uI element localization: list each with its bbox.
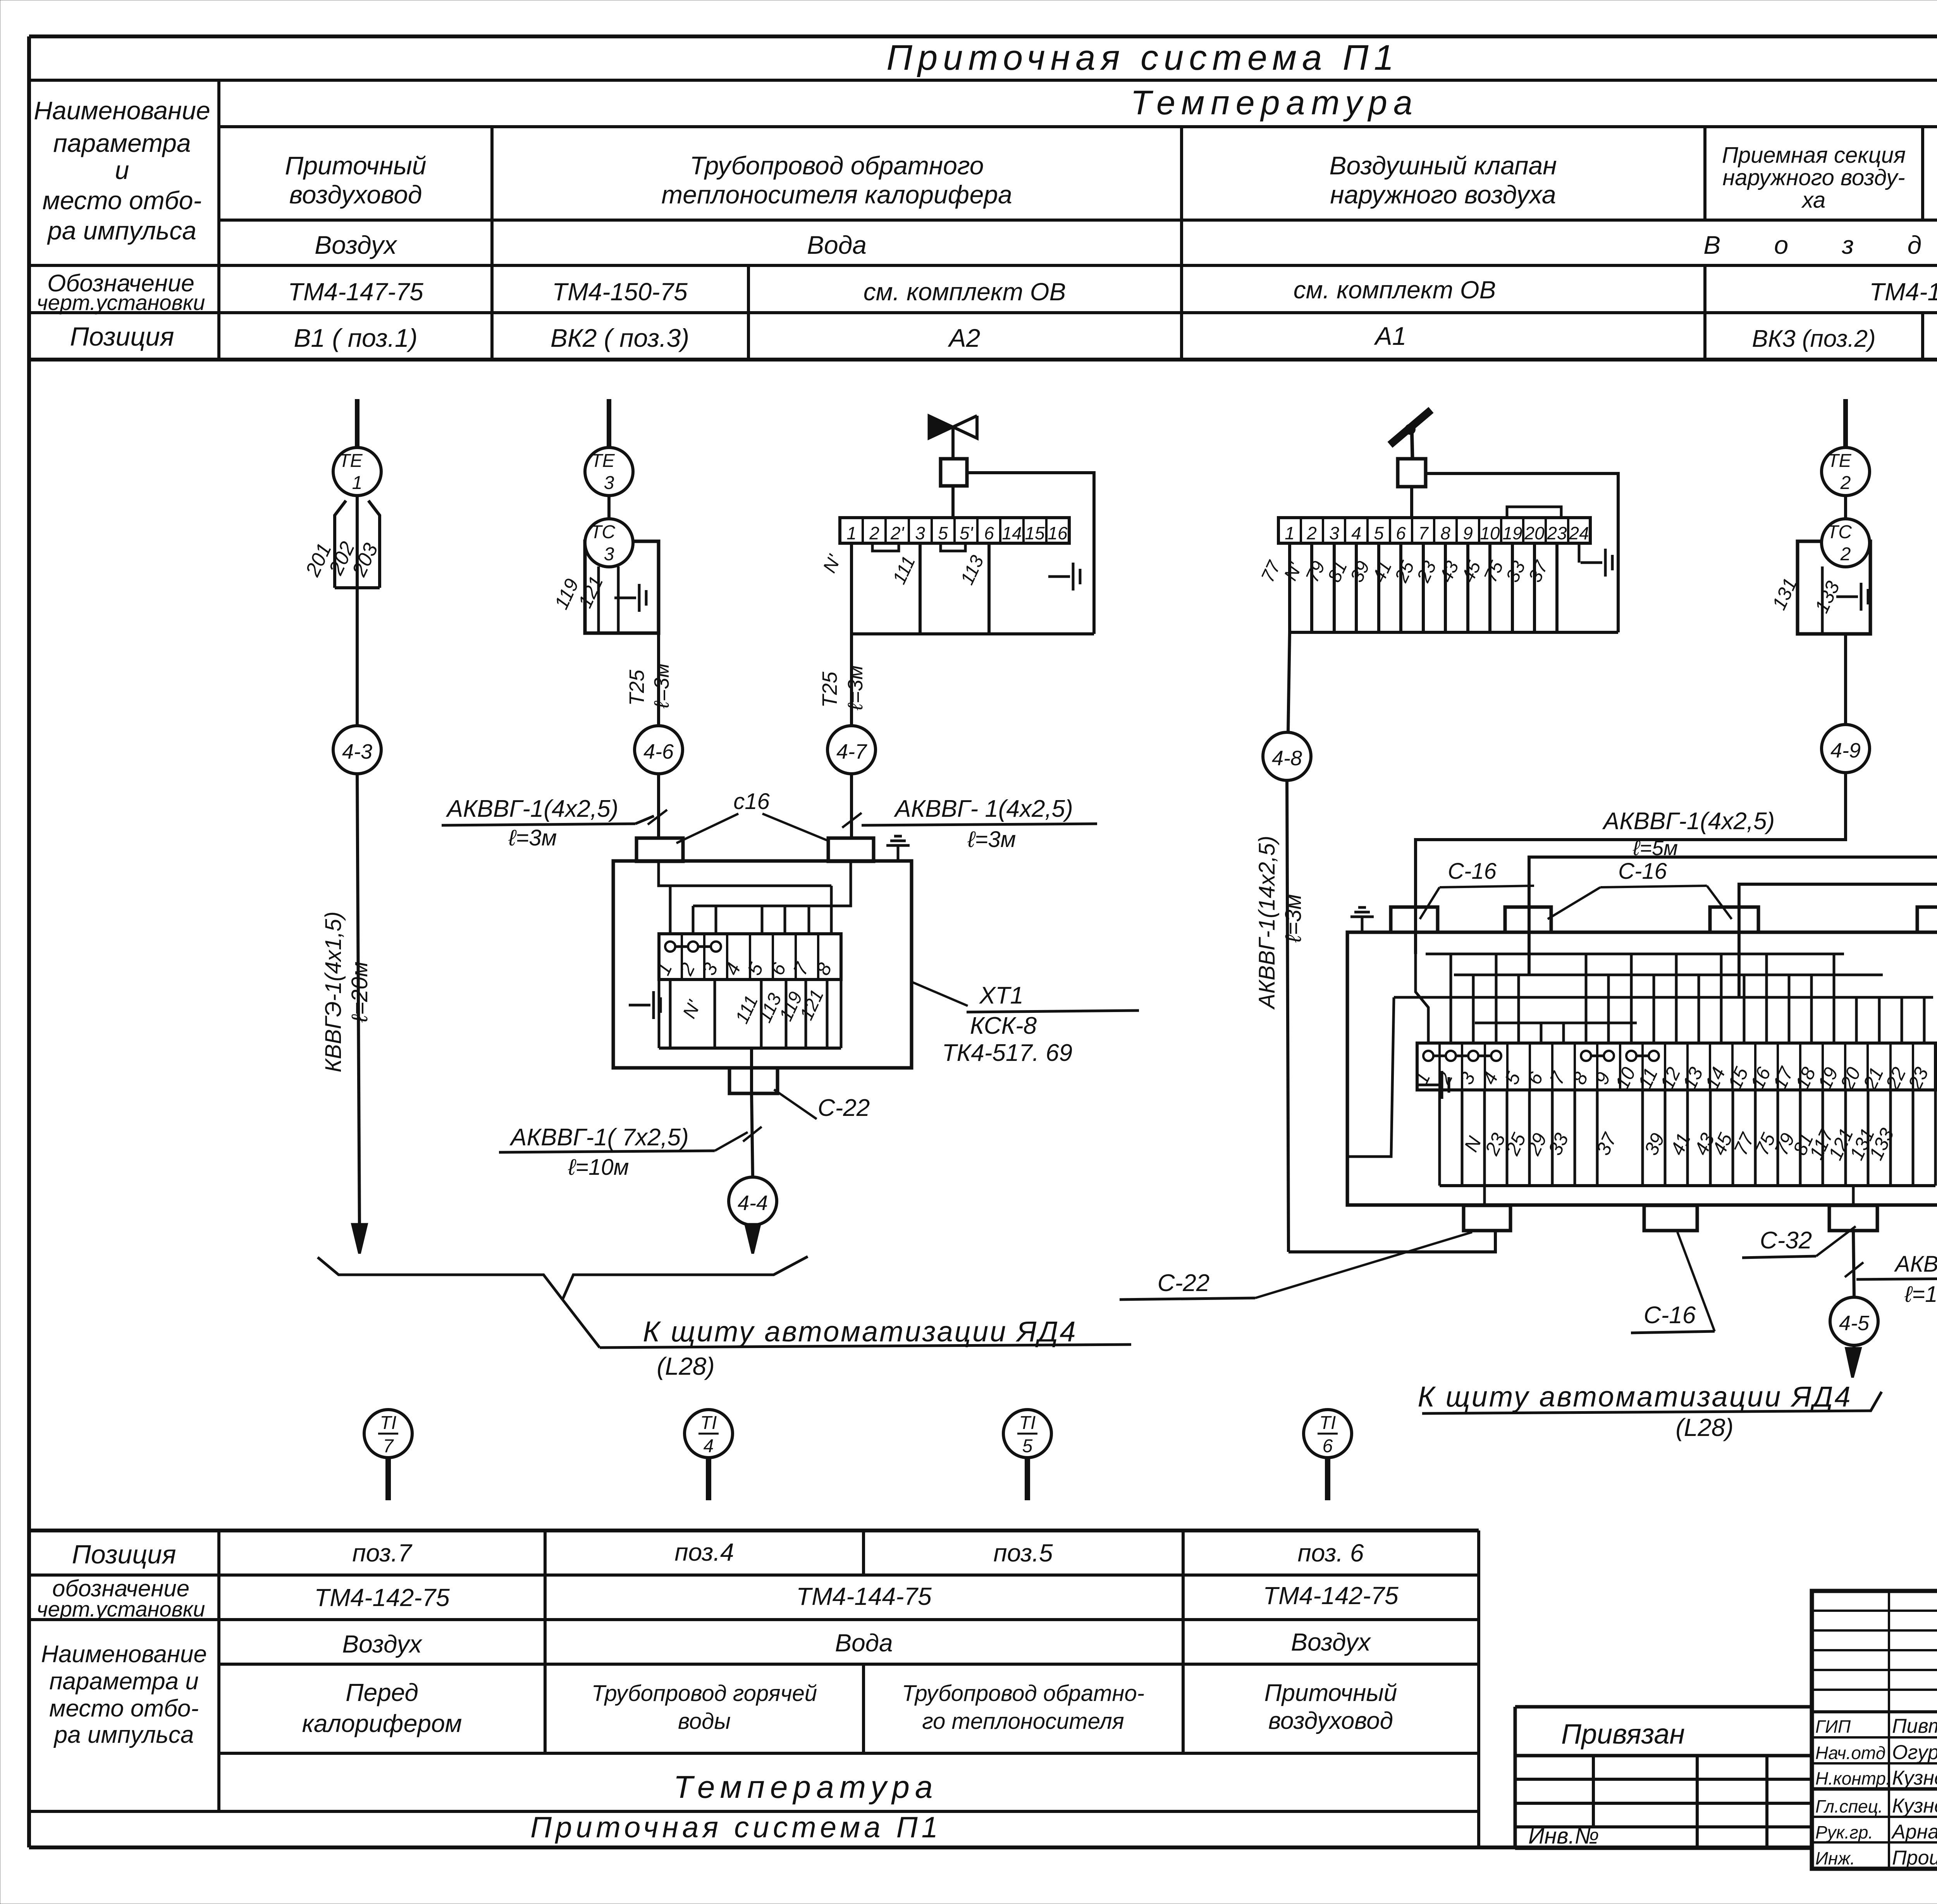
svg-text:Приточный: Приточный	[1264, 1680, 1397, 1706]
jumper clip cells 19-23	[1507, 507, 1561, 518]
svg-text:С-32: С-32	[1760, 1227, 1812, 1254]
XT1 top connector left	[636, 838, 683, 861]
svg-text:ℓ=20м: ℓ=20м	[347, 962, 372, 1023]
wires below strip A1	[1290, 543, 1557, 632]
cable label l=3м rotated (A1)	[1281, 894, 1306, 943]
cable label АКВВГ-1(14х2,5) rotated	[1254, 836, 1280, 1010]
junction box XT2	[1347, 932, 1937, 1205]
ground inside XT2	[1417, 1084, 1439, 1086]
svg-text:Пивторак: Пивторак	[1892, 1715, 1937, 1737]
sensor TC2 (ВК3)	[1822, 519, 1870, 567]
wire tag 113	[957, 552, 988, 588]
sensor TC3 junction box	[585, 541, 659, 633]
svg-text:КВВГЭ-1(4х1,5): КВВГЭ-1(4х1,5)	[321, 911, 346, 1072]
wire stem above TE1	[355, 399, 360, 448]
wire square to strip	[951, 486, 955, 518]
wire tag 119	[550, 575, 583, 613]
svg-text:и: и	[115, 156, 129, 184]
svg-text:ра импульса: ра импульса	[53, 1722, 194, 1748]
wire tag N'	[819, 551, 845, 576]
svg-text:5: 5	[1022, 1436, 1033, 1456]
XT1 top connector right	[828, 838, 874, 861]
svg-text:2': 2'	[890, 523, 905, 543]
stem below TI6	[1325, 1458, 1330, 1500]
svg-text:ℓ=5м: ℓ=5м	[1633, 837, 1678, 860]
svg-text:3: 3	[604, 473, 614, 493]
svg-text:черт.установки: черт.установки	[37, 290, 205, 315]
svg-text:Воздух: Воздух	[342, 1630, 422, 1658]
local thermometer TI5	[1003, 1410, 1051, 1458]
wire tag 201	[301, 540, 336, 580]
wire С-32 to 4-5	[1853, 1231, 1854, 1297]
privyazan table grid	[1515, 1707, 1812, 1848]
wire TE3-TC3	[607, 496, 611, 519]
wire bus to 4-7	[850, 634, 853, 726]
svg-text:2: 2	[1306, 523, 1317, 543]
damper actuator square	[1398, 459, 1426, 487]
svg-text:23: 23	[1547, 523, 1567, 543]
arrow down (to ЯД4) left	[353, 1224, 366, 1253]
arrow below 4-4	[751, 1225, 754, 1240]
svg-text:поз.4: поз.4	[674, 1538, 734, 1566]
svg-text:воды: воды	[678, 1709, 731, 1734]
cable label АКВВГ-1(4х2,5) right	[862, 795, 1097, 852]
svg-text:место отбо-: место отбо-	[43, 186, 202, 215]
svg-text:Кузнецов: Кузнецов	[1892, 1767, 1937, 1789]
cable marker 4-8	[1263, 732, 1311, 780]
svg-text:6: 6	[984, 523, 994, 543]
signature rows	[1815, 1715, 1937, 1869]
svg-text:4-6: 4-6	[643, 740, 674, 763]
svg-text:С-22: С-22	[818, 1095, 870, 1121]
svg-text:5: 5	[938, 523, 948, 543]
wire 4-10 feeder	[1529, 773, 1937, 975]
XT2 top connector 3	[1710, 907, 1758, 932]
sensor TC3	[585, 519, 633, 567]
svg-text:АКВВГ-1(14х2,5): АКВВГ-1(14х2,5)	[1254, 836, 1280, 1010]
svg-text:ТI: ТI	[380, 1413, 397, 1433]
box cell lines TC3	[597, 566, 600, 633]
wire tag 121	[574, 573, 607, 611]
svg-text:ТМ4-147-75: ТМ4-147-75	[1869, 278, 1937, 306]
svg-text:Приточная система П1: Приточная система П1	[886, 38, 1399, 77]
XT2 jumper 8-9	[1586, 1055, 1609, 1057]
damper drive symbol	[1390, 410, 1431, 445]
svg-text:ℓ=15м: ℓ=15м	[1904, 1282, 1937, 1307]
air valve symbol (bowtie)	[929, 416, 953, 438]
svg-text:воздуховод: воздуховод	[289, 180, 422, 209]
svg-text:АКВВГ-1(4х2,5): АКВВГ-1(4х2,5)	[446, 795, 618, 822]
wire 111 from cell 3	[919, 543, 922, 634]
svg-text:ТМ4-144-75: ТМ4-144-75	[796, 1582, 932, 1610]
wire 113 from cell 6	[987, 543, 991, 634]
svg-text:Наименование: Наименование	[41, 1641, 207, 1668]
svg-text:3: 3	[604, 544, 614, 565]
svg-text:Воздух: Воздух	[315, 231, 397, 259]
svg-text:ℓ=3м: ℓ=3м	[844, 665, 867, 711]
svg-text:АКВВГ-1(4х2,5): АКВВГ-1(4х2,5)	[1602, 808, 1775, 835]
svg-text:ℓ=3м: ℓ=3м	[508, 825, 557, 850]
svg-text:Кузнецов: Кузнецов	[1892, 1795, 1937, 1817]
cable marker 4-9	[1822, 725, 1870, 773]
svg-text:Инв.№: Инв.№	[1528, 1823, 1599, 1849]
svg-text:ГИП: ГИП	[1815, 1716, 1851, 1737]
svg-text:ТМ4-142-75: ТМ4-142-75	[314, 1584, 450, 1611]
svg-text:16: 16	[1048, 523, 1068, 543]
stem below TI5	[1025, 1458, 1030, 1500]
wire tag 202	[325, 538, 360, 578]
XT1 drop to cell 3	[715, 906, 717, 934]
svg-text:Гл.спец.: Гл.спец.	[1815, 1796, 1883, 1816]
XT1 tag N'	[679, 997, 705, 1022]
XT2 bottom connector С-16	[1644, 1205, 1697, 1231]
sensor TE2 (ВК3)	[1822, 448, 1870, 496]
XT1 tag 111	[732, 992, 762, 1027]
cable label l=20м rotated	[347, 962, 372, 1023]
svg-text:4-5: 4-5	[1839, 1312, 1870, 1335]
svg-text:4-3: 4-3	[342, 740, 372, 763]
junction box XT1	[613, 861, 912, 1068]
svg-text:1: 1	[846, 523, 857, 543]
svg-text:6: 6	[1323, 1436, 1333, 1456]
svg-text:калорифером: калорифером	[302, 1709, 462, 1737]
XT1 bottom connector С-22	[729, 1068, 778, 1093]
svg-text:4-8: 4-8	[1272, 747, 1302, 770]
XT2 jumper 10-11	[1631, 1055, 1654, 1057]
svg-text:4: 4	[704, 1436, 714, 1456]
svg-text:воздуховод: воздуховод	[1268, 1708, 1393, 1734]
bt: обозначение черт.установки	[37, 1575, 205, 1621]
svg-text:поз. 6: поз. 6	[1298, 1539, 1364, 1567]
svg-text:2: 2	[1840, 544, 1851, 565]
svg-text:5': 5'	[960, 523, 974, 543]
bt: Трубопровод обратно-го теплоносителя	[902, 1681, 1144, 1734]
svg-text:КСК-8: КСК-8	[970, 1012, 1037, 1039]
XT2 internal bus 1	[1426, 953, 1844, 955]
cable marker 4-3	[333, 726, 381, 774]
cable label АКВВГ-1(19х2,5)	[1856, 1252, 1937, 1307]
sheet bottom segment under privyazan	[1479, 1846, 1812, 1849]
XT2 top connector 2	[1505, 907, 1551, 932]
XT2 terminal strip frame	[1417, 1043, 1935, 1090]
svg-text:ТЕ: ТЕ	[1827, 451, 1851, 471]
wire square right and down (A1)	[1426, 473, 1618, 632]
svg-text:(L28): (L28)	[657, 1352, 714, 1380]
svg-text:ТЕ: ТЕ	[591, 451, 615, 471]
svg-text:параметра и: параметра и	[49, 1668, 198, 1695]
svg-text:Т25: Т25	[625, 670, 649, 706]
svg-text:А1: А1	[1374, 322, 1407, 350]
XT1 strip cells 1-8	[652, 934, 836, 980]
svg-text:теплоносителя калорифера: теплоносителя калорифера	[661, 180, 1012, 209]
XT2 bottom connector С-22	[1464, 1205, 1510, 1231]
svg-text:7: 7	[383, 1436, 394, 1456]
svg-text:А2: А2	[948, 324, 981, 352]
svg-text:ТС: ТС	[1827, 522, 1852, 542]
svg-text:Трубопровод обратно-: Трубопровод обратно-	[902, 1681, 1144, 1706]
svg-text:3: 3	[915, 523, 925, 543]
svg-text:ℓ=3м: ℓ=3м	[650, 663, 673, 709]
stem below TI4	[706, 1458, 711, 1500]
XT2 internal bus 4	[1475, 1022, 1637, 1024]
terminal strip A2 cells	[846, 518, 1068, 543]
svg-text:7: 7	[1418, 523, 1429, 543]
wire bus A1 to 4-8	[1288, 632, 1290, 732]
svg-text:ТI: ТI	[1019, 1413, 1036, 1433]
cable marker 4-7	[827, 726, 876, 774]
XT2 top connector 4	[1917, 907, 1937, 932]
terminal strip A2 frame	[840, 518, 1069, 543]
svg-text:черт.установки: черт.установки	[37, 1597, 205, 1621]
bracket leader to label	[563, 1300, 600, 1348]
ground on right drop wire	[1048, 575, 1070, 578]
svg-text:8: 8	[1440, 523, 1450, 543]
cable label АКВВГ-1(4х2,5) for 4-9	[1602, 808, 1775, 860]
bracket right (to ЯД4)	[1422, 1392, 1882, 1413]
svg-text:см. комплект ОВ: см. комплект ОВ	[864, 278, 1066, 306]
title block grid	[1812, 1591, 1937, 1869]
svg-text:В о з д у х: В о з д у х	[1703, 231, 1937, 259]
svg-text:ха: ха	[1801, 188, 1826, 213]
XT1 drop to cell 1	[669, 886, 672, 934]
XT1 terminal strip frame	[659, 934, 841, 980]
local thermometer TI4	[685, 1410, 733, 1458]
svg-text:В1 ( поз.1): В1 ( поз.1)	[294, 324, 417, 352]
svg-text:Привязан: Привязан	[1561, 1719, 1685, 1750]
XT2 tag labels	[1460, 1125, 1898, 1164]
svg-text:ТС: ТС	[590, 522, 615, 542]
ground from cell 24 (A1)	[1578, 543, 1581, 563]
svg-text:Рук.гр.: Рук.гр.	[1815, 1822, 1873, 1842]
wire 4-8 to С-22 of XT2	[1288, 1231, 1495, 1252]
svg-text:поз.7: поз.7	[352, 1539, 413, 1567]
primary sensor TE1	[333, 448, 381, 496]
svg-text:15: 15	[1025, 523, 1045, 543]
XT2 bottom connector С-32	[1829, 1205, 1877, 1231]
XT1 tag boxes	[659, 980, 841, 1048]
svg-text:Инж.: Инж.	[1815, 1848, 1855, 1868]
cable marker 4-4	[729, 1177, 777, 1225]
svg-text:ХТ1: ХТ1	[979, 982, 1024, 1009]
svg-text:(L28): (L28)	[1676, 1413, 1733, 1441]
svg-text:наружного возду-: наружного возду-	[1722, 165, 1905, 190]
ground in TC3 box	[614, 597, 636, 599]
leader tick on 4-4 wire	[743, 1127, 762, 1141]
svg-text:Температура: Температура	[674, 1770, 938, 1805]
sensor element body below TE1	[335, 496, 380, 588]
wire 4-3 down	[357, 774, 360, 1232]
svg-text:Вода: Вода	[807, 231, 867, 259]
svg-text:4-7: 4-7	[836, 740, 867, 763]
svg-text:1: 1	[352, 473, 363, 493]
svg-text:9: 9	[1463, 523, 1473, 543]
ground on XT1 top	[897, 845, 900, 861]
wire 4-11 feeder	[1739, 865, 1937, 997]
svg-text:ℓ=3м: ℓ=3м	[967, 827, 1016, 852]
wire TE1 to 4-3	[356, 588, 359, 726]
leader tick on 4-6 wire	[648, 810, 667, 825]
wire tag l=3м (2)	[844, 665, 867, 711]
bt: Наименование параметра и место отбо-ра импульса	[41, 1641, 207, 1748]
wire tag 203	[348, 540, 383, 580]
svg-text:Воздушный клапан: Воздушный клапан	[1329, 151, 1557, 180]
svg-text:6: 6	[1396, 523, 1406, 543]
local thermometer TI7	[364, 1410, 412, 1458]
leader tick on 4-5 wire	[1845, 1262, 1863, 1277]
bt: Приточный воздуховод	[1264, 1680, 1397, 1734]
bus under strip A1	[1290, 631, 1618, 634]
ground inside XT1	[629, 1004, 650, 1007]
svg-text:Температура: Температура	[1130, 83, 1419, 122]
svg-text:Т25: Т25	[818, 671, 841, 708]
XT1 drop to cell 2	[692, 906, 695, 934]
svg-text:Позиция: Позиция	[70, 322, 174, 351]
XT2 tag boxes	[1440, 1090, 1935, 1186]
wire XT1 tags to С-22	[750, 1048, 753, 1093]
valve actuator square	[941, 459, 967, 486]
svg-text:5: 5	[1374, 523, 1384, 543]
svg-text:С-16: С-16	[1618, 859, 1667, 884]
left header: Обозначение черт.установки	[37, 270, 205, 315]
wire 4-8 down	[1287, 780, 1288, 1252]
wire tag 111	[889, 553, 920, 587]
svg-text:2: 2	[869, 523, 879, 543]
svg-text:Н.контр.: Н.контр.	[1815, 1768, 1891, 1789]
wire 4-9 feeder	[1416, 773, 1846, 954]
XT2 strip cells 1-23	[1410, 1043, 1932, 1093]
XT1 jumper 1-2-3	[670, 945, 716, 948]
svg-text:поз.5: поз.5	[993, 1539, 1053, 1567]
XT1 tag 113	[755, 990, 786, 1026]
svg-text:4: 4	[1351, 523, 1361, 543]
svg-text:АКВВГ- 1(4х2,5): АКВВГ- 1(4х2,5)	[893, 795, 1073, 822]
svg-text:ТI: ТI	[1319, 1413, 1336, 1433]
svg-text:Наименование: Наименование	[34, 96, 210, 125]
svg-text:Приточный: Приточный	[285, 151, 427, 180]
wire TE2-TC2 (ВК3)	[1844, 496, 1847, 519]
svg-text:Проимкина: Проимкина	[1892, 1847, 1937, 1869]
cable label АКВВГ-1(4х2,5) left	[442, 795, 654, 850]
svg-text:4-9: 4-9	[1830, 739, 1861, 762]
cable label АКВВГ-1(7х2,5)	[499, 1124, 748, 1180]
arrow below 4-5	[1853, 1345, 1854, 1362]
XT1 drop to cell 8	[830, 886, 833, 934]
svg-text:К щиту автоматизации ЯД4: К щиту автоматизации ЯД4	[1417, 1381, 1852, 1413]
jumper clip cells 5-5'	[941, 543, 965, 551]
svg-text:Нач.отд: Нач.отд	[1815, 1743, 1885, 1763]
jumper clip cells 2-2'	[872, 543, 899, 551]
svg-text:1: 1	[1285, 523, 1295, 543]
ground in TC2 box (ВК3)	[1836, 596, 1858, 598]
col header: Трубопровод обратного теплоносителя калорифера	[661, 151, 1012, 209]
local thermometer TI6	[1304, 1410, 1352, 1458]
svg-text:ВК3 (поз.2): ВК3 (поз.2)	[1752, 325, 1875, 352]
XT2 jumper 1-4	[1428, 1055, 1496, 1057]
svg-text:ра импульса: ра импульса	[47, 216, 196, 245]
wire tag Т25 (2)	[818, 671, 841, 708]
sensor TE3	[585, 448, 633, 496]
svg-text:наружного воздуха: наружного воздуха	[1330, 180, 1556, 209]
col header: Приточный воздуховод	[285, 151, 427, 209]
svg-text:Вода: Вода	[835, 1629, 893, 1657]
group bracket left (to ЯД4)	[318, 1257, 808, 1300]
cable label КВВГЭ-1(4х1,5) rotated	[321, 911, 346, 1072]
XT1 tag 119	[776, 989, 807, 1024]
svg-text:ТМ4-147-75: ТМ4-147-75	[288, 278, 423, 306]
svg-text:ТМ4-142-75: ТМ4-142-75	[1263, 1582, 1399, 1610]
wire tag Т25	[625, 670, 649, 706]
svg-text:10: 10	[1480, 523, 1500, 543]
wire TC2 to 4-9	[1844, 634, 1847, 725]
svg-text:С-16: С-16	[1644, 1302, 1696, 1329]
label К щиту автоматизации ЯД4 (right)	[1417, 1381, 1852, 1441]
svg-text:Приемная секция: Приемная секция	[1722, 143, 1906, 168]
bus under strip A2	[852, 632, 1094, 635]
leader tick on 4-7 wire	[842, 813, 862, 828]
wire stem above TE3	[607, 399, 611, 448]
bt: Перед калорифером	[302, 1678, 462, 1737]
wire tag 133	[1811, 578, 1844, 616]
svg-text:14: 14	[1002, 523, 1022, 543]
wire square to strip A1	[1410, 487, 1413, 518]
svg-text:Перед: Перед	[346, 1678, 418, 1706]
svg-text:ТI: ТI	[700, 1413, 717, 1433]
svg-text:Позиция: Позиция	[72, 1540, 176, 1569]
XT1 drop to cell 7	[808, 906, 810, 934]
svg-text:3: 3	[1329, 523, 1339, 543]
svg-text:АКВВГ-1( 7х2,5): АКВВГ-1( 7х2,5)	[509, 1124, 689, 1151]
wire 4-7 to XT1	[850, 774, 853, 839]
XT1 drop to cell 5	[761, 906, 764, 934]
svg-text:Приточная система П1: Приточная система П1	[530, 1811, 942, 1844]
svg-text:ТК4-517. 69: ТК4-517. 69	[942, 1040, 1072, 1066]
svg-text:АКВВГ-1(19х2,5): АКВВГ-1(19х2,5)	[1894, 1252, 1937, 1277]
TC2 junction box (ВК3)	[1798, 541, 1870, 634]
wire stem above TE2 (ВК3)	[1843, 399, 1848, 448]
svg-text:го теплоносителя: го теплоносителя	[922, 1709, 1124, 1734]
terminal strip A1 cells	[1285, 518, 1589, 543]
svg-text:место отбо-: место отбо-	[49, 1695, 199, 1722]
svg-text:с16: с16	[733, 789, 770, 814]
XT2 internal bus 2	[1454, 974, 1883, 976]
wire tag 131	[1768, 575, 1801, 613]
cable marker 4-6	[635, 726, 683, 774]
XT2 internal bus 3	[1394, 996, 1933, 999]
stem below TI7	[385, 1458, 391, 1500]
wire tags below strip A1	[1258, 557, 1553, 586]
XT2 left internal wire	[1349, 997, 1394, 1157]
ground on XT2 top	[1361, 917, 1364, 932]
bottom table grid	[29, 1530, 1479, 1847]
XT1 internal bus 2	[693, 861, 851, 906]
label К щиту автоматизации ЯД4 (left)	[600, 1315, 1131, 1380]
wire tag l=3м	[650, 663, 673, 709]
svg-text:24: 24	[1569, 523, 1589, 543]
cable marker 4-5	[1830, 1297, 1878, 1345]
col header: Воздушный клапан наружного воздуха	[1329, 151, 1557, 209]
svg-text:ℓ=10м: ℓ=10м	[568, 1155, 629, 1180]
bt: Трубопровод горячей воды	[592, 1681, 817, 1734]
wire N' from cell 1	[850, 543, 853, 634]
svg-text:ТЕ: ТЕ	[339, 451, 363, 471]
XT1 internal bus 1	[659, 861, 831, 886]
svg-text:см. комплект ОВ: см. комплект ОВ	[1294, 276, 1496, 304]
svg-text:Огурцов: Огурцов	[1892, 1741, 1937, 1764]
wire С-22 to 4-4	[752, 1093, 753, 1177]
svg-text:ВК2 ( поз.3): ВК2 ( поз.3)	[550, 324, 689, 352]
terminal strip A1 frame	[1278, 518, 1590, 543]
wire square right and down	[967, 473, 1094, 634]
